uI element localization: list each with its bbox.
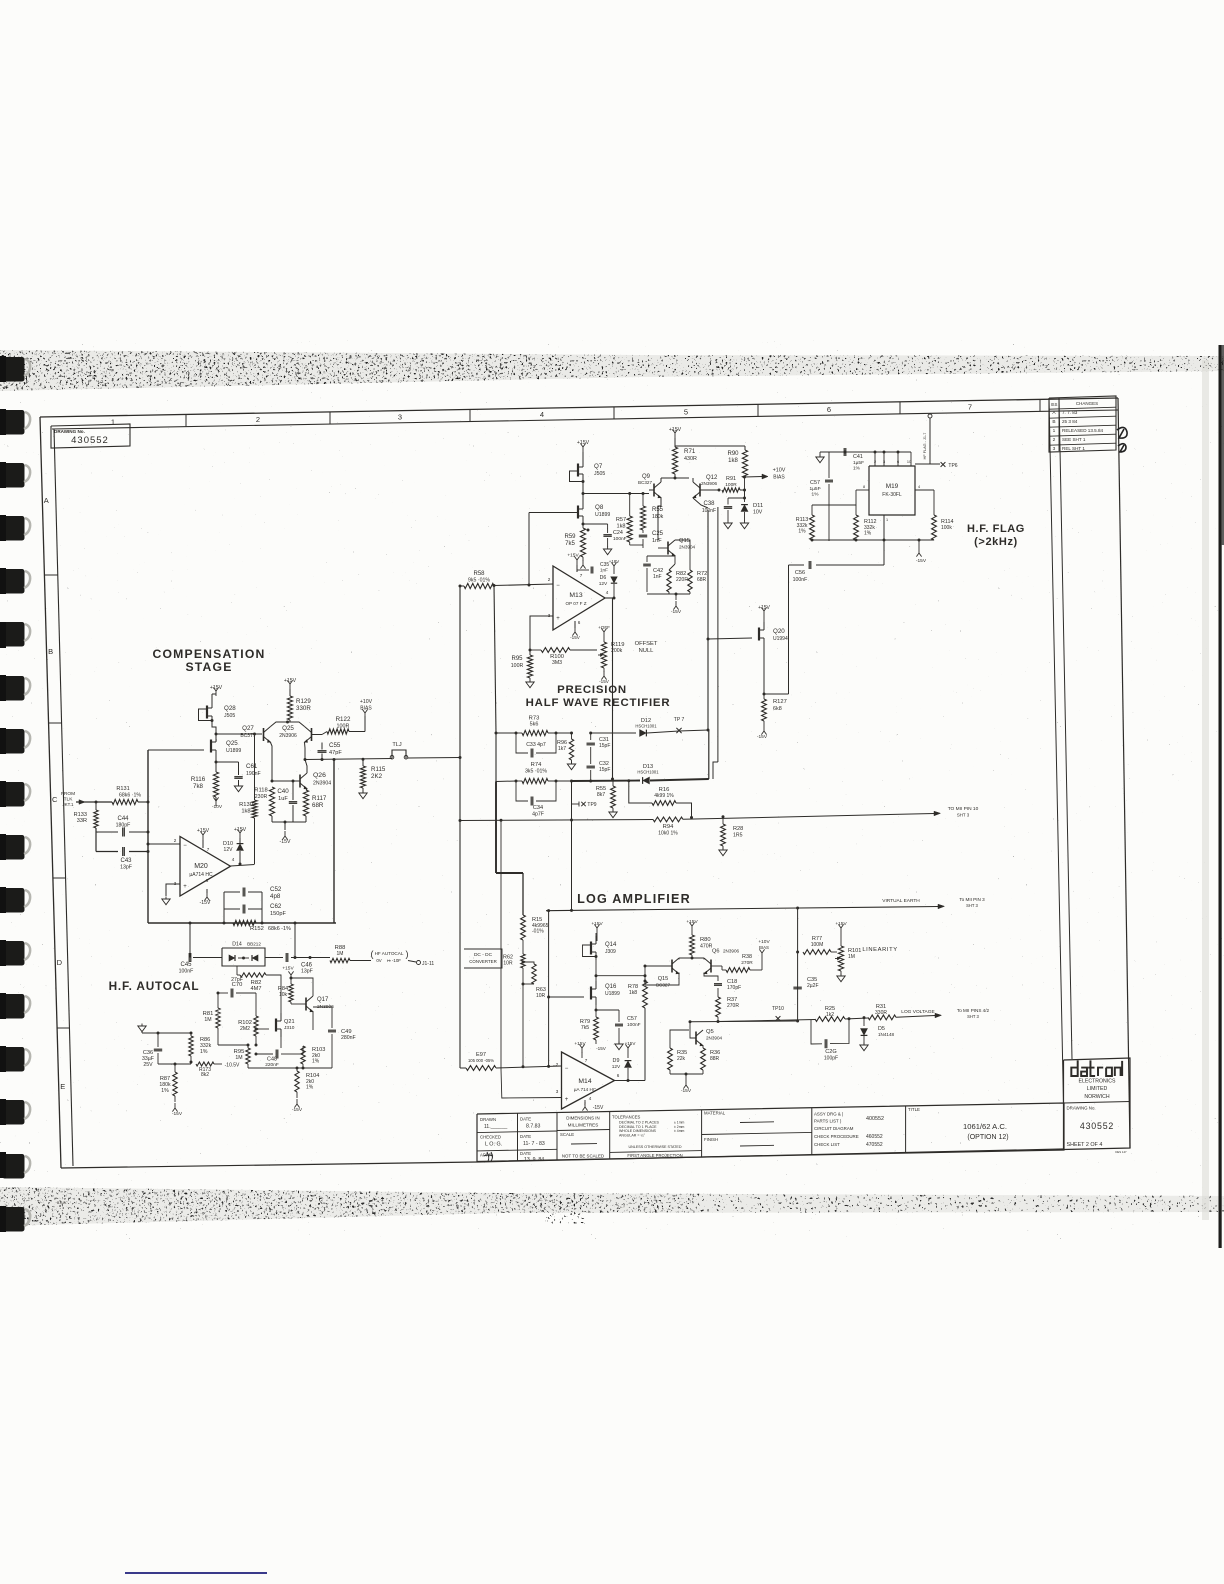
svg-text:2N3906: 2N3906 [701,481,718,486]
svg-text:0V: 0V [376,958,381,963]
svg-text:150pF: 150pF [270,911,286,917]
wire M20 pin2 [148,838,187,849]
wire Q26 base bus [271,780,301,783]
wire Q7 drain [583,451,586,453]
wire Q25b base to R122 [312,732,328,735]
resistor R117 [303,789,326,816]
svg-text:4p8: 4p8 [270,893,281,900]
wire Q8 gate line [529,513,578,586]
resistor R58 [460,571,494,589]
resistor R31 [863,1004,942,1020]
wire +15V rail top [675,445,745,447]
svg-text:15pF: 15pF [599,743,610,749]
resistor R63 [522,961,546,1000]
wire Q14 node to Q15 [596,974,647,977]
svg-text:3: 3 [883,460,885,464]
power -15V R59 [580,557,585,569]
resistor R73 [516,716,573,736]
title strip assy col [814,1112,884,1149]
wire Q27 collector to R118 [271,743,273,782]
svg-text:BIAS: BIAS [773,475,785,481]
svg-text:+15V: +15V [197,828,210,834]
pin M14 pin7 +15V [574,1041,587,1063]
svg-text:68R: 68R [312,802,324,809]
wire C31 down bus [571,820,573,911]
resistor R87 [159,1063,177,1097]
op-amp M14 [562,1052,615,1109]
svg-text:Q14: Q14 [605,942,617,948]
power +OFF R119 [598,625,610,637]
svg-text:R38: R38 [742,954,752,960]
svg-text:12V: 12V [224,847,234,853]
wire M14 output [615,1073,646,1082]
power -15V comp [280,822,291,845]
svg-text:R57: R57 [616,517,626,523]
capacitor C33 [516,733,556,758]
capacitor C42 [643,556,675,592]
wire M13 output [605,590,616,600]
wire R82 to Q21 col [266,975,281,1014]
wire R130 up [253,733,256,801]
wire Q17 emitter [312,1012,314,1030]
svg-text:+OFF: +OFF [598,625,610,630]
scan noise band top [0,348,1224,394]
svg-text:UNLESS OTHERWISE STATED: UNLESS OTHERWISE STATED [628,1145,681,1149]
diode D12 [572,718,680,736]
connector J1-7 HF FLAG [923,414,932,464]
svg-text:FK-30FL: FK-30FL [882,492,902,498]
svg-text:HSCH1001: HSCH1001 [637,770,659,775]
svg-text:D9: D9 [613,1058,620,1064]
svg-text:MILLIMETRES: MILLIMETRES [568,1123,599,1128]
power -10V R116 [212,797,223,810]
capacitor C57 hf [809,452,833,541]
transistor Q20 [759,622,788,646]
svg-text:): ) [406,949,409,959]
svg-text:R152: R152 [250,926,264,932]
svg-text:R131: R131 [116,786,129,792]
resistor R25 [815,1006,868,1021]
capacitor C62 [224,892,286,917]
datron block text [1067,1079,1128,1155]
svg-text:TP9: TP9 [587,802,596,808]
svg-text:LINEARITY: LINEARITY [862,947,897,953]
pin M19 pin1 [884,515,888,565]
svg-text:1%: 1% [853,466,861,472]
svg-text:1N4148: 1N4148 [878,1032,895,1037]
ground R115 [359,788,367,799]
svg-text:270R: 270R [727,1003,739,1009]
block dc-dc converter [464,949,502,968]
svg-text:C40: C40 [277,788,289,795]
svg-text:DATE: DATE [520,1134,531,1139]
svg-text:1k7: 1k7 [558,746,566,752]
svg-text:+15V: +15V [758,605,770,611]
wire M20 pin3 gnd [166,884,180,896]
svg-text:CONVERTER: CONVERTER [469,959,497,964]
svg-text:-15V: -15V [596,1046,607,1051]
svg-text:Q20: Q20 [773,628,785,635]
wire virtual earth line [546,904,945,912]
resistor R104 [295,1067,320,1093]
wire C36-R86 join [158,1056,193,1064]
svg-text:1: 1 [111,418,115,427]
capacitor C18 [704,973,741,998]
svg-text:E: E [60,1082,65,1091]
svg-text:280nF: 280nF [341,1035,356,1041]
svg-text:13pF: 13pF [120,865,132,871]
wire Q12 collector down [693,498,708,508]
svg-text:DRAWING No.: DRAWING No. [54,429,85,434]
svg-text:88R: 88R [710,1056,720,1062]
svg-text:BIAS: BIAS [360,706,372,712]
wire to R88 [309,956,331,959]
transistor Q14 [591,936,617,960]
svg-text:10k: 10k [279,992,288,998]
capacitor C38 [702,490,746,521]
svg-text:+15V: +15V [284,678,297,684]
frame right border [1118,398,1130,1148]
resistor R80 [690,935,713,955]
svg-text:STAGE: STAGE [185,660,232,674]
wire M13 +15V C35 [567,553,579,573]
pin M13 pin6 [570,620,581,640]
resistor R88 [330,945,371,963]
wire Q12 base right [700,489,721,492]
resistor R72 [675,540,707,592]
power +15V R101 [835,921,847,946]
power -15V Q5 [681,1074,692,1094]
svg-text:B: B [1052,419,1055,425]
wire Q17 collector [290,977,314,997]
svg-text:To MII PIN 3: To MII PIN 3 [959,897,985,902]
svg-text:-15V: -15V [570,635,581,640]
wire VE riser [548,911,550,1067]
svg-text:R118: R118 [254,788,267,794]
svg-text:R71: R71 [684,448,696,455]
svg-text:+15V: +15V [686,919,698,925]
resistor R152 [233,920,291,932]
svg-text:1%: 1% [812,492,820,498]
svg-text:U1899: U1899 [226,748,241,754]
wire M19 top bus [838,451,911,454]
wire M20 output [231,857,255,866]
resistor R127 [762,694,787,721]
svg-text:HF FLAG - J1-7: HF FLAG - J1-7 [923,433,927,460]
svg-text:TP 7: TP 7 [674,717,685,723]
wire R80 node [679,955,704,960]
node -10.5V [214,1063,240,1069]
svg-text:To MII PINS 4/2: To MII PINS 4/2 [957,1008,990,1013]
svg-text:-10V: -10V [212,804,223,810]
wire Q6 emitter up [703,958,705,960]
power -15V R127 [757,721,768,740]
svg-text:R74: R74 [531,762,542,768]
svg-text:100pF: 100pF [824,1056,838,1062]
svg-text:1%: 1% [798,529,806,535]
svg-text:190nF: 190nF [246,771,261,777]
wire Q28-Q25 node [212,721,218,736]
title hf flag [967,523,1025,548]
svg-text:8k7: 8k7 [597,792,605,798]
svg-text:R91: R91 [726,476,736,482]
svg-text:U1899: U1899 [595,512,610,518]
svg-text:HALF WAVE RECTIFIER: HALF WAVE RECTIFIER [526,697,671,709]
node +10V BIAS out [743,468,786,499]
title hf autocal [109,979,200,993]
power +15V Q7 [577,440,590,452]
label to MII pin10 [948,806,979,818]
svg-text:2: 2 [174,838,177,843]
testpoint TP9 [572,802,597,809]
wire Q15 collector top [661,532,675,540]
svg-text:C24: C24 [613,530,623,536]
capacitor C35 log [793,977,818,989]
svg-text:1: 1 [886,518,888,522]
svg-text:−: − [565,1066,569,1072]
resistor R94 [653,817,683,837]
svg-text:-15V: -15V [757,734,768,740]
svg-text:NOT TO BE SCALED: NOT TO BE SCALED [562,1154,604,1159]
svg-text:C41: C41 [853,454,863,460]
svg-text:10R: 10R [503,961,513,967]
svg-text:Q17: Q17 [317,997,329,1003]
svg-text:+: + [183,884,187,890]
connector J1-11 [408,961,434,968]
svg-text:1%: 1% [200,1049,208,1055]
svg-text:R28: R28 [733,826,743,832]
ground R95 [526,678,534,688]
svg-text:170pF: 170pF [727,985,741,991]
resistor R28 [721,817,744,846]
svg-text:DRAWING No.: DRAWING No. [1067,1106,1096,1111]
resistor R130 [239,800,257,818]
svg-text:C62: C62 [270,903,282,910]
svg-text:−: − [183,843,187,849]
svg-text:1µ5F: 1µ5F [853,460,864,466]
resistor R113 [796,490,856,540]
resistor R84 [278,984,293,1002]
capacitor C43 [120,847,149,871]
wire drop to C45 [189,922,192,958]
wire M14 out up to R78 [644,1008,646,1081]
svg-text:10R: 10R [536,993,546,999]
wire rect left bus down [496,782,523,916]
svg-text:R94: R94 [663,824,674,830]
transistor Q17 [306,996,334,1012]
svg-text:+10V: +10V [360,699,373,705]
power +15V R84 [282,966,294,985]
capacitor C45 [179,953,222,975]
capacitor C49 [313,1007,356,1064]
power -15V R87 [172,1096,191,1117]
svg-text:-15V: -15V [292,1107,303,1113]
pin M19 pin8 [856,485,869,490]
svg-text:LIMITED: LIMITED [1087,1086,1108,1092]
svg-text:C44: C44 [117,816,129,822]
svg-text:+18V: +18V [609,559,619,564]
power +15V Q20 [758,605,770,622]
svg-text:DC - DC: DC - DC [474,952,493,958]
wire M13 out down [611,598,614,781]
svg-text:+15V: +15V [669,427,682,433]
frame top border [40,398,1118,429]
svg-text:2N3906: 2N3906 [279,733,297,739]
potentiometer R101 [835,946,861,971]
wire R55 8k7 branch [612,781,614,784]
svg-text:1M: 1M [337,951,344,957]
svg-text:25V: 25V [143,1062,153,1068]
svg-text:R122: R122 [336,716,351,723]
resistor R91 [722,476,745,492]
capacitor C32 [587,761,611,781]
svg-text:100R: 100R [511,663,524,669]
capacitor C34 [516,780,558,818]
frame bottom left mark [57,1201,67,1205]
svg-text:1k8: 1k8 [728,458,738,464]
svg-text:2µ2F: 2µ2F [807,983,819,989]
svg-text:C34: C34 [533,805,543,811]
svg-text:+15V: +15V [574,1041,586,1047]
wire Q7-Q8 node [582,480,585,509]
wire Q12 emitter [692,478,694,482]
capacitor C25 [630,530,664,548]
ground R55 8k7 [609,808,617,818]
svg-text:+15V: +15V [210,685,223,691]
svg-text:B.B.B.: B.B.B. [57,1201,67,1205]
ground R28 [719,846,727,856]
svg-text:SHT 3: SHT 3 [967,1014,979,1019]
wire bus TLJ vertical [459,585,462,1069]
resistor R57 [616,492,632,542]
svg-text:2N3906: 2N3906 [723,949,740,954]
svg-text:Q15: Q15 [658,976,669,982]
diode D10 [223,827,247,864]
svg-text:3: 3 [556,1089,559,1094]
resistor E97 [460,1052,562,1070]
wire Q9 collector down [658,498,661,540]
resistor R16 [629,781,692,818]
svg-text:+15V: +15V [234,827,247,833]
svg-text:2: 2 [1053,437,1056,443]
svg-text:430552: 430552 [1080,1121,1114,1131]
wire Q28 drain [212,694,216,700]
svg-text:Q8: Q8 [595,504,604,511]
wire out to R25 [718,1020,815,1022]
svg-text:4: 4 [589,1096,592,1101]
frame row letters [44,496,65,1091]
resistor R78 [628,981,648,1008]
svg-text:DATE: DATE [520,1117,531,1122]
label offset null [635,641,658,654]
wire Q5 collector [702,1026,704,1030]
resistor R36 [701,1046,721,1070]
pin M20 pin7 +15V [197,828,210,852]
ground C61 [234,780,242,792]
svg-text:3k5 ·01%: 3k5 ·01% [525,769,547,775]
resistor R116 [191,758,219,797]
svg-text:TLJ: TLJ [392,742,402,748]
svg-text:M13: M13 [569,592,582,599]
svg-text:RELEASED 13.5.84: RELEASED 13.5.84 [1062,428,1104,433]
svg-text:PRECISION: PRECISION [557,684,627,696]
svg-text:R58: R58 [473,571,485,577]
svg-text:1R5: 1R5 [733,833,743,839]
svg-text:68R: 68R [697,577,707,583]
jumper TLJ [390,742,408,759]
wire feedback box bottom [148,922,336,924]
resistor R79 [580,1017,599,1040]
svg-text:Q28: Q28 [224,705,236,712]
svg-text:H.F. FLAG: H.F. FLAG [967,523,1025,535]
svg-text:± 4mm: ± 4mm [674,1129,685,1133]
svg-text:2M2: 2M2 [240,1026,250,1032]
svg-text:220nF: 220nF [265,1062,279,1068]
svg-text:-15V: -15V [280,839,291,845]
svg-text:5k6: 5k6 [530,722,539,728]
svg-text:(>2kHz): (>2kHz) [974,536,1018,548]
svg-text:U1899: U1899 [605,991,620,997]
wire feedback box left [147,750,150,923]
svg-text:D14: D14 [232,942,242,948]
wire Q14 gate loop [583,945,598,958]
svg-text:270R: 270R [741,960,753,966]
wire log out bus [690,1015,941,1022]
svg-text:LOG AMPLIFIER: LOG AMPLIFIER [577,892,691,906]
svg-text:D6: D6 [600,575,607,581]
wire C70 row [217,992,229,995]
svg-text:H.F. AUTOCAL: H.F. AUTOCAL [109,979,200,993]
svg-text:1061/62 A.C.: 1061/62 A.C. [963,1122,1007,1131]
op-amp M20 [180,837,231,897]
svg-text:CIRCUIT DIAGRAM: CIRCUIT DIAGRAM [814,1126,854,1131]
svg-text:1%: 1% [312,1059,320,1065]
pin M19 pins top [874,452,911,466]
svg-text:Q26: Q26 [313,772,326,779]
potentiometer R119 [597,637,624,668]
wire Q20 to C56 [764,693,789,695]
wire Q14-Q16 link [595,958,598,987]
svg-text:Q25: Q25 [226,740,238,747]
svg-text:C38: C38 [703,501,715,507]
svg-text:7k5: 7k5 [565,541,575,547]
wire drop to C46 [294,922,297,958]
transistor Q15 log [656,958,679,988]
svg-text:-01%: -01% [532,929,544,935]
svg-text:JKT.1: JKT.1 [63,802,75,807]
capacitor C24 [583,524,627,547]
svg-text:33R: 33R [77,818,87,824]
wire M13 pin3 net [530,616,553,655]
resistor R74 [516,762,572,784]
svg-text:9k5 ·01%: 9k5 ·01% [468,578,490,584]
svg-text:BIAS: BIAS [759,945,769,950]
ground autocal left [138,1024,146,1034]
resistor R122 [327,716,351,734]
svg-text:470R: 470R [700,944,713,950]
svg-text:1µ5F: 1µ5F [809,486,820,492]
svg-text:100nF: 100nF [627,1022,641,1028]
capacitor C48 [255,1050,293,1069]
svg-text:15pF: 15pF [599,767,610,773]
svg-text:ELECTRONICS: ELECTRONICS [1079,1079,1116,1085]
svg-text:100nF: 100nF [702,508,716,514]
svg-text:7: 7 [580,573,583,578]
svg-text:-15V: -15V [599,679,610,684]
svg-text:4k99 1%: 4k99 1% [654,793,674,799]
resistor R15 [521,915,549,940]
svg-text:1%: 1% [864,531,872,537]
